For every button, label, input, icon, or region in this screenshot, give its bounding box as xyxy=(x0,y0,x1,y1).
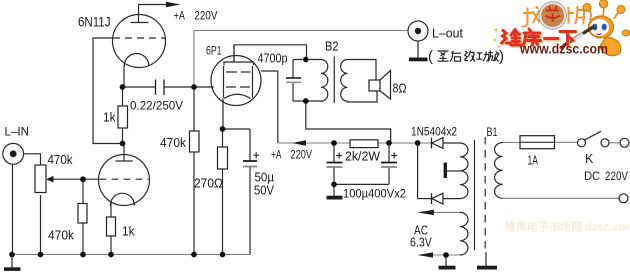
wire: 6P1 plate to B2 top node xyxy=(234,45,307,62)
transformer B1 HV secondary winding xyxy=(460,143,468,199)
watermark sparkles xyxy=(494,28,497,31)
wire: 50u bottom lead xyxy=(249,167,251,255)
connector L-IN xyxy=(3,143,24,164)
watermark mascot crown balls xyxy=(588,5,621,20)
wire: coupling cap to 6P1 grid xyxy=(165,86,214,88)
wire: 470k lower top lead xyxy=(82,179,84,203)
wire: L-IN hot to pot top xyxy=(24,154,41,165)
wire: B2 secondary bottom to speaker xyxy=(348,91,378,102)
V2 beam plate left xyxy=(223,66,225,98)
transformer B1 6.3V winding xyxy=(460,212,468,255)
triode V1b plate xyxy=(116,160,133,162)
node: bus at 1k xyxy=(108,252,114,258)
wire: top diode anode to HV winding xyxy=(443,142,460,144)
wire: lower grid lead xyxy=(83,178,100,180)
speaker 8ohm xyxy=(369,80,380,91)
triode V1a 6N11J upper envelope xyxy=(113,15,166,68)
wire: 1k SRPP top lead xyxy=(122,87,124,106)
svg-text:B2: B2 xyxy=(325,40,339,54)
svg-text:+A: +A xyxy=(174,9,185,23)
glyph ku xyxy=(523,29,541,46)
svg-text:220V: 220V xyxy=(194,9,217,23)
triode V1a cathode xyxy=(124,54,149,66)
watermark magnifier with chip xyxy=(540,3,565,28)
svg-text:K: K xyxy=(585,152,594,166)
capacitor 50u plates xyxy=(243,160,257,162)
svg-text:470k: 470k xyxy=(160,136,187,150)
resistor 1k (SRPP) xyxy=(118,106,128,128)
V2 plate xyxy=(224,62,254,65)
glyph wei xyxy=(502,30,521,46)
wire: bottom diode anode to HV winding xyxy=(443,198,460,200)
svg-text:www.dzsc.com: www.dzsc.com xyxy=(519,42,608,57)
glyph xia xyxy=(560,32,576,46)
wire: lower cathode lead xyxy=(110,202,112,217)
svg-text:100µ400Vx2: 100µ400Vx2 xyxy=(343,187,406,201)
wire: +A rail left segment xyxy=(278,142,350,144)
svg-text:220V: 220V xyxy=(605,169,628,183)
svg-text:220V: 220V xyxy=(291,148,313,162)
node: rail at 100u left xyxy=(331,140,337,146)
diode D1 1N5404 xyxy=(432,138,443,149)
svg-text:50V: 50V xyxy=(254,184,275,198)
V2 cathode xyxy=(224,94,251,98)
fuse 1A xyxy=(520,136,555,149)
resistor 470k grid-leak of 6P1 xyxy=(190,131,200,152)
resistor 1k cathode lower xyxy=(107,217,116,236)
node: rail at 100u right xyxy=(386,140,392,146)
wire: L-out line from 6P1 grid node xyxy=(194,31,408,87)
HV center-tap chassis bar xyxy=(444,163,447,179)
node: 6P1 grid xyxy=(191,84,197,90)
svg-text:(: ( xyxy=(428,48,433,65)
V2 screen grid (dashed) xyxy=(226,71,251,73)
arrow AC 6.3V top (points left) xyxy=(417,210,434,215)
triode V1b grid (dashed) xyxy=(100,178,150,180)
glyph hou (rear) xyxy=(450,51,461,62)
svg-text:DC: DC xyxy=(584,169,600,183)
glyph ji (stage) xyxy=(464,51,475,62)
capacitor 100u left plates xyxy=(327,162,343,164)
wire: L-IN shell ground lead xyxy=(12,164,14,254)
svg-text:8Ω: 8Ω xyxy=(393,82,407,96)
wire: lower diode cathode stub xyxy=(418,198,432,200)
node: bus at grid leak xyxy=(191,252,197,258)
watermark mascot body xyxy=(600,37,621,56)
terminal DC top xyxy=(620,138,629,147)
watermark weiku yixia red text xyxy=(502,29,576,46)
polarity + right 100u xyxy=(391,153,397,159)
V2 plate lead xyxy=(233,45,235,62)
ground L-out xyxy=(417,41,419,58)
svg-text:470k: 470k xyxy=(48,229,75,243)
wire: 4700p bottom lead xyxy=(292,83,294,102)
node: SRPP mid xyxy=(120,141,126,147)
capacitor 100u left leads xyxy=(333,143,335,162)
glyph yi xyxy=(545,37,559,40)
resistor 270ohm xyxy=(218,147,228,169)
watermark mascot eyes xyxy=(592,24,597,31)
node: lower grid xyxy=(80,176,86,182)
svg-text:6.3V: 6.3V xyxy=(410,236,432,250)
wire: upper cathode to coupling cap xyxy=(124,65,155,87)
ground core xyxy=(477,266,497,270)
watermark glyph pian (piece) xyxy=(569,6,585,25)
V2 beam plate right xyxy=(252,66,254,98)
wire: B2 top node xyxy=(293,59,321,61)
node: bus at L-IN ground xyxy=(9,252,15,258)
wire: fuse to switch xyxy=(555,141,578,143)
svg-text:50µ: 50µ xyxy=(255,171,275,185)
wire: grid feedback line (upper grid to SRPP mid node) xyxy=(93,38,123,144)
resistor 2k/2W (series) xyxy=(350,140,378,148)
capacitor 0.22/250V plates xyxy=(155,80,157,96)
glyph fang (amp) xyxy=(488,51,499,62)
wire: core ground stem xyxy=(485,252,487,266)
diode D2 1N5404 xyxy=(432,193,443,204)
node: upper cathode / 1k / coupling cap xyxy=(120,84,126,90)
svg-text:L–out: L–out xyxy=(432,27,464,41)
wire: B2 bottom node xyxy=(293,100,321,102)
terminal DC bottom xyxy=(619,194,628,203)
triode V1b 6N11J lower envelope xyxy=(99,155,150,206)
wire: ground bus xyxy=(12,254,250,256)
wire: 470k lower bottom lead xyxy=(82,223,84,255)
wire: 1k lower bottom lead xyxy=(110,236,112,255)
watermark mascot head xyxy=(589,16,614,38)
ground 6.3V xyxy=(439,266,456,270)
wire: pot bottom lead xyxy=(40,195,42,255)
wire: caps common to ground node xyxy=(334,183,389,185)
node: cap ground join xyxy=(331,182,337,188)
arrow +A top xyxy=(166,2,181,8)
wire: +A rail right segment xyxy=(378,142,431,144)
transformer B2 secondary winding xyxy=(341,60,348,102)
node: B2 primary top xyxy=(303,57,309,63)
wire: 6.3V top lead xyxy=(433,211,461,213)
glyph zhi (to) xyxy=(438,51,449,61)
wire: 6P1 cathode lead xyxy=(222,99,224,130)
svg-text:4700p: 4700p xyxy=(258,52,288,66)
wire: B1 primary bottom to terminal xyxy=(503,197,619,199)
wire: B2 bottom down to rectified rail node xyxy=(306,101,391,143)
wire: switch to terminal xyxy=(609,142,620,144)
capacitor 4700p plates xyxy=(286,77,301,79)
wire: 470k grid-leak bottom lead xyxy=(193,152,195,255)
svg-text:2k/2W: 2k/2W xyxy=(345,150,380,164)
svg-text:): ) xyxy=(499,48,504,65)
wire: mid node down to lower plate xyxy=(123,144,125,162)
svg-text:1k: 1k xyxy=(122,225,135,239)
transformer B2 primary winding xyxy=(321,60,328,102)
beam tube V2 6P1 envelope xyxy=(211,56,261,106)
svg-text:6P1: 6P1 xyxy=(206,46,222,58)
glyph gong (power) xyxy=(476,52,489,62)
svg-text:维库电子市场网 dzsc.com: 维库电子市场网 dzsc.com xyxy=(505,220,630,234)
wire: 270ohm top lead xyxy=(222,129,224,147)
watermark mascot pen xyxy=(563,27,594,47)
wire: rectifier output vertical xyxy=(417,143,419,199)
svg-text:470k: 470k xyxy=(48,153,74,167)
node: 6P1 cathode xyxy=(220,126,226,132)
svg-text:B1: B1 xyxy=(487,125,498,139)
ground main (bottom left) xyxy=(11,255,13,269)
svg-text:0.22/250V: 0.22/250V xyxy=(130,99,183,113)
node: rail at rectifier xyxy=(415,140,421,146)
wire: B2 secondary top to speaker xyxy=(348,60,377,81)
arrow +A mid (points left) xyxy=(292,140,306,145)
svg-text:L–IN: L–IN xyxy=(5,125,30,139)
WATERMARK xyxy=(428,0,630,233)
wire: 4700p top lead xyxy=(292,60,294,78)
wire: +A plate rail to arrow (top) xyxy=(139,5,167,23)
V2 control grid (dashed) xyxy=(226,86,252,88)
arrow AC 6.3V bottom (points left) xyxy=(417,252,433,257)
ground 100u caps xyxy=(333,184,335,196)
connector L-out xyxy=(408,21,428,41)
wire: 470k grid-leak top lead xyxy=(193,87,195,131)
transformer B1 core right line (dashed) xyxy=(484,137,486,252)
polarity + left 100u xyxy=(336,153,342,159)
wire: B1 primary top to fuse xyxy=(503,142,520,144)
triode V1b cathode xyxy=(110,193,134,205)
svg-text:+A: +A xyxy=(271,148,282,162)
wire: 270ohm bottom lead xyxy=(222,169,224,255)
transformer B1 primary winding xyxy=(495,143,503,199)
transformer B2 core xyxy=(333,57,335,104)
wire: 6.3V ground stem xyxy=(445,255,447,266)
transformer B1 core left line xyxy=(474,140,476,250)
capacitor 100u right leads xyxy=(388,143,390,162)
wire: cathode node to 50u cap xyxy=(223,128,250,130)
svg-text:1k: 1k xyxy=(103,111,116,125)
triode V1a plate xyxy=(131,22,149,24)
capacitor 50u polarity + xyxy=(253,152,259,158)
svg-text:270Ω: 270Ω xyxy=(194,177,223,191)
svg-text:6N11J: 6N11J xyxy=(78,15,111,30)
svg-text:1A: 1A xyxy=(528,154,539,168)
wire: 1k SRPP bottom lead to mid node xyxy=(122,128,124,144)
potentiometer 470k body xyxy=(35,165,46,193)
switch K lever xyxy=(585,131,601,140)
node: B2 primary bottom xyxy=(303,98,309,104)
node: bus at pot xyxy=(38,252,44,258)
node: bus at 270ohm xyxy=(220,252,226,258)
wire: 6.3V bottom lead xyxy=(432,254,460,256)
node: 6.3V bottom / ground xyxy=(443,252,449,258)
node: bus at 470k xyxy=(80,252,86,258)
wire: HV center tap xyxy=(446,170,460,172)
triode V1a grid (dashed) xyxy=(113,37,166,39)
watermark glyph zhao (find) xyxy=(522,7,540,28)
resistor 470k lower xyxy=(78,204,87,224)
capacitor 100u right plates xyxy=(381,162,397,164)
wire: 6P1 screen grid feed to +A rail xyxy=(261,71,278,143)
potentiometer wiper arrow xyxy=(46,176,54,183)
watermark weiku yixia shadow xyxy=(503,30,577,47)
switch K contacts xyxy=(578,139,586,147)
wire: wiper to lower grid node xyxy=(53,178,83,180)
wire: 50u top lead xyxy=(249,129,251,161)
svg-text:1N5404x2: 1N5404x2 xyxy=(411,125,457,139)
